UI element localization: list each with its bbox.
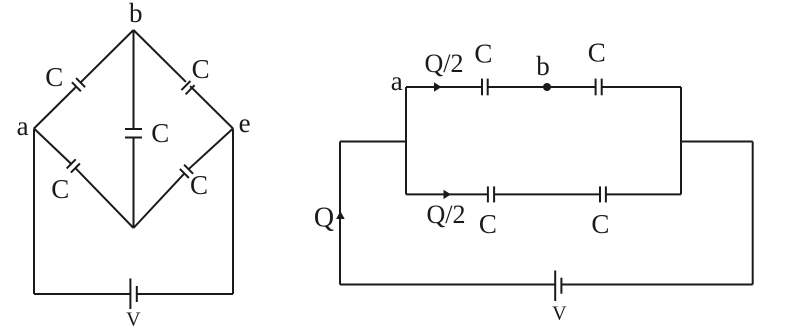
wire rect left edge <box>405 87 407 194</box>
wire rect bottom edge seg2 <box>494 193 600 195</box>
wire left vertical <box>339 142 341 285</box>
node b dot <box>543 83 551 91</box>
wire rect top edge seg2 <box>488 86 596 88</box>
capacitor C5 (middle) <box>125 129 142 138</box>
wire left vertical from a <box>33 129 35 295</box>
svg-text:b: b <box>536 51 550 81</box>
svg-text:b: b <box>129 0 143 28</box>
svg-text:C: C <box>474 39 492 69</box>
wire bottom left segment <box>34 293 130 295</box>
wire right vertical from e <box>232 129 234 295</box>
capacitor C2 (b-e edge) <box>181 81 194 94</box>
svg-text:C: C <box>479 209 497 239</box>
svg-text:C: C <box>588 38 606 68</box>
battery V2 long plate <box>554 271 556 302</box>
wire left branch horizontal <box>340 141 406 143</box>
svg-text:V: V <box>552 303 567 325</box>
capacitor C3 (a-d edge) <box>67 159 80 172</box>
svg-text:C: C <box>591 209 609 239</box>
svg-text:Q/2: Q/2 <box>427 200 466 229</box>
svg-text:C: C <box>151 118 169 148</box>
svg-text:C: C <box>51 174 69 204</box>
svg-text:C: C <box>192 54 210 84</box>
capacitor C4 (e-d edge) <box>180 165 193 178</box>
wire b-e diamond edge <box>134 30 234 129</box>
capacitor C6 (top left) <box>482 79 488 96</box>
wire bottom left segment (right diagram) <box>340 284 555 286</box>
wire right branch horizontal <box>681 141 753 143</box>
wire rect right edge <box>680 87 682 194</box>
capacitor C1 (a-b edge) <box>72 78 85 91</box>
svg-text:a: a <box>17 111 29 141</box>
wire a-d diamond edge <box>34 129 134 229</box>
battery V1 short plate <box>136 286 138 302</box>
svg-text:V: V <box>126 309 141 331</box>
capacitor C8 (bottom left) <box>488 186 494 202</box>
svg-text:a: a <box>391 66 403 96</box>
wire b-d vertical (upper segment) <box>133 30 135 129</box>
wire rect bottom edge seg1 <box>406 193 488 195</box>
wire rect bottom edge seg3 <box>606 193 681 195</box>
svg-text:C: C <box>190 170 208 200</box>
wire b-d vertical (lower segment) <box>133 138 135 229</box>
arrow Q/2 top <box>434 82 442 91</box>
wire right vertical <box>752 142 754 285</box>
wire bottom right segment <box>137 293 233 295</box>
svg-text:Q/2: Q/2 <box>425 49 464 78</box>
capacitor C9 (bottom right) <box>600 186 606 202</box>
wire rect top edge seg3 <box>602 86 681 88</box>
battery V1 long plate <box>129 279 131 310</box>
svg-text:e: e <box>239 108 251 138</box>
capacitor C7 (top right) <box>596 79 602 96</box>
svg-text:Q: Q <box>314 203 334 234</box>
wire bottom right segment (right diagram) <box>561 284 752 286</box>
arrow Q up <box>336 211 345 219</box>
wire rect top edge seg1 <box>406 86 482 88</box>
wire a-b diamond edge <box>34 30 134 129</box>
wire e-d diamond edge <box>134 129 234 229</box>
svg-text:C: C <box>45 62 63 92</box>
arrow Q/2 bottom <box>444 190 452 199</box>
battery V2 short plate <box>560 278 562 294</box>
